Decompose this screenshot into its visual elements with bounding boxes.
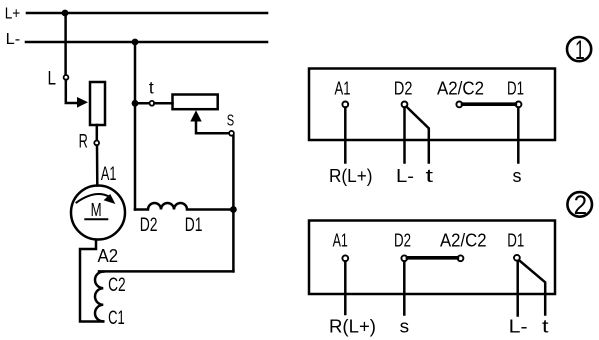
- svg-text:D2: D2: [394, 230, 411, 251]
- svg-text:D1: D1: [185, 214, 203, 236]
- svg-text:1: 1: [575, 35, 585, 65]
- svg-text:2: 2: [574, 190, 588, 220]
- wiper arrow into rheostat R: [77, 97, 88, 108]
- box2 terminal D2: [401, 255, 407, 261]
- svg-text:L-: L-: [6, 31, 21, 48]
- junction D1 node: [230, 206, 237, 213]
- box1 terminal A2/C2: [456, 102, 462, 108]
- box1 terminal D1: [516, 102, 522, 108]
- terminal box 1 outline: [309, 69, 555, 141]
- svg-text:D2: D2: [140, 214, 158, 236]
- box1 wire A1 to R(L+): [344, 108, 347, 163]
- svg-text:S: S: [227, 112, 234, 129]
- motor rotation arrow arc: [77, 194, 110, 202]
- svg-text:s: s: [513, 165, 522, 186]
- motor M armature circle: [71, 186, 125, 240]
- circled connection variant 1: [567, 37, 591, 61]
- box2 terminal D1: [514, 255, 520, 261]
- svg-text:C1: C1: [108, 307, 125, 329]
- wire L- rail: [26, 41, 267, 44]
- circled connection variant 2: [567, 192, 592, 217]
- rheostat t body: [173, 95, 218, 110]
- wire terminal t to rheostat t: [154, 102, 172, 105]
- wire L+ junction down to terminal L: [64, 13, 67, 75]
- wire terminal L to wiper of rheostat R: [66, 80, 78, 103]
- rheostat R body: [90, 82, 105, 125]
- svg-text:A2: A2: [98, 245, 119, 266]
- terminal L: [64, 75, 69, 80]
- svg-text:R: R: [79, 130, 88, 152]
- svg-text:D1: D1: [507, 230, 524, 251]
- wire L- junction down to D2: [134, 42, 137, 210]
- svg-text:A1: A1: [101, 163, 117, 185]
- wire motor A2 down-left to C1: [80, 240, 103, 322]
- terminal t: [150, 101, 155, 106]
- svg-text:t: t: [426, 165, 434, 186]
- svg-text:A2/C2: A2/C2: [437, 78, 484, 99]
- svg-text:L: L: [48, 69, 57, 90]
- wire terminal R to motor terminal A1: [96, 146, 99, 186]
- wire C2 to right-hand node: [99, 270, 233, 273]
- wire wiper to terminal s: [196, 121, 229, 133]
- rheostat t wiper arrow: [190, 110, 201, 121]
- svg-text:A1: A1: [333, 230, 348, 251]
- box2 wire D1 to t (diagonal): [519, 260, 545, 314]
- wire terminal s down to C2 node: [232, 136, 235, 272]
- svg-text:L-: L-: [396, 165, 414, 186]
- svg-text:s: s: [400, 315, 410, 336]
- svg-text:R(L+): R(L+): [329, 165, 373, 186]
- wire L+ rail: [27, 12, 267, 15]
- svg-text:t: t: [149, 78, 154, 98]
- box1 wire D2 to L-: [403, 108, 406, 163]
- svg-text:D1: D1: [507, 78, 524, 99]
- svg-text:t: t: [542, 315, 549, 336]
- box2 terminal A2/C2: [458, 255, 464, 261]
- box1 wire D1 to s: [517, 108, 520, 163]
- svg-text:M: M: [91, 199, 102, 220]
- svg-text:D2: D2: [394, 78, 413, 99]
- box1 link A2/C2 - D1: [463, 102, 516, 106]
- inductor D2-D1 (series winding) with leads: [135, 203, 233, 210]
- box1 terminal A1: [342, 102, 348, 108]
- svg-text:L+: L+: [5, 6, 21, 23]
- junction t tap: [132, 100, 139, 107]
- terminal s: [229, 131, 234, 136]
- terminal box 2 outline: [309, 221, 555, 295]
- junction L+ / L branch: [62, 10, 69, 17]
- inductor C1-C2 (compensation winding): [95, 272, 103, 322]
- motor rotation arrowhead: [104, 194, 116, 204]
- box2 terminal A1: [342, 255, 348, 261]
- motor DC underline: [85, 218, 107, 220]
- svg-text:A2/C2: A2/C2: [440, 230, 487, 251]
- terminal R: [94, 141, 99, 146]
- svg-text:R(L+): R(L+): [329, 315, 376, 336]
- box1 terminal D2: [402, 102, 408, 108]
- svg-text:C2: C2: [108, 274, 126, 296]
- box2 wire D2 to s: [403, 261, 406, 314]
- junction L- / D2 branch: [132, 39, 139, 46]
- wire t tap to terminal t: [135, 102, 149, 105]
- box2 wire A1 to R(L+): [344, 261, 347, 314]
- svg-text:L-: L-: [509, 315, 528, 336]
- box2 link D2 - A2/C2: [407, 256, 457, 260]
- wire rheostat R to terminal R: [96, 125, 99, 140]
- svg-text:A1: A1: [335, 78, 351, 99]
- box2 wire D1 to L-: [516, 261, 519, 316]
- box1 wire D2 to t (diagonal): [406, 107, 428, 163]
